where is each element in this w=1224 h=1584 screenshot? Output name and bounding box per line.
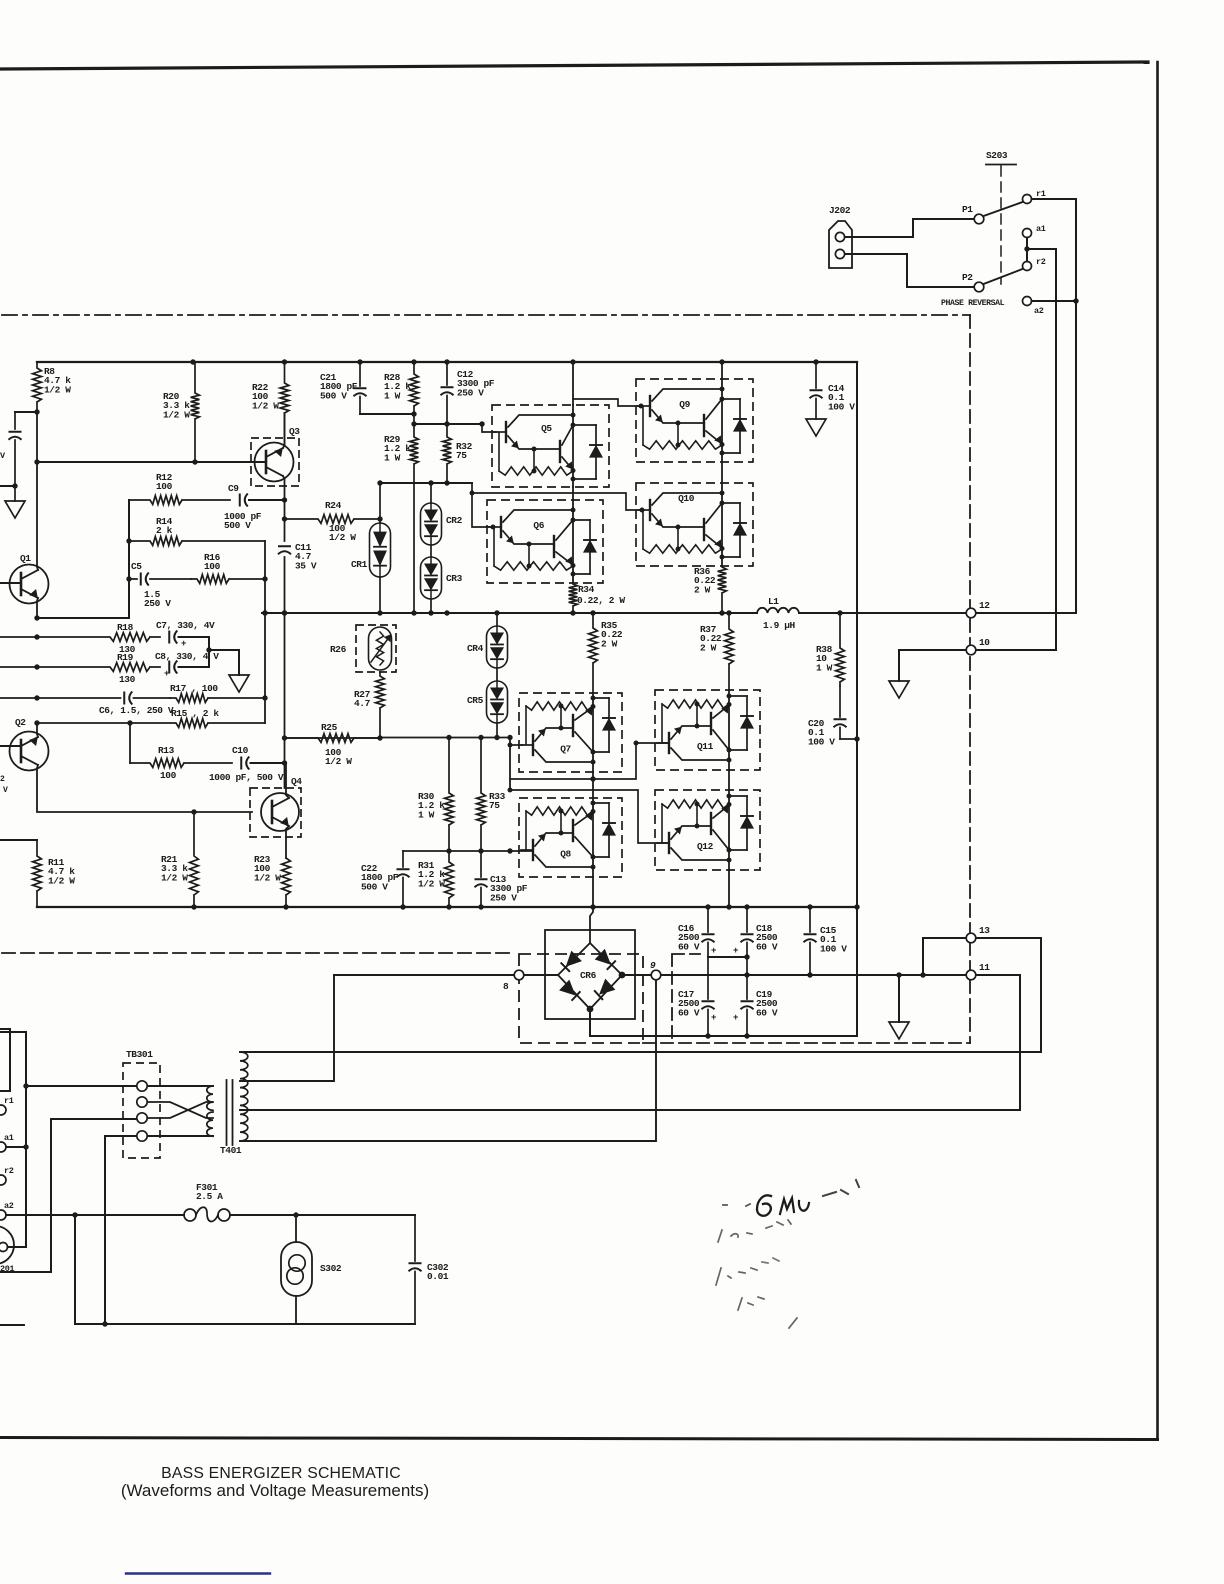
contact a1 chassis xyxy=(0,1142,6,1152)
svg-text:S203: S203 xyxy=(986,150,1008,161)
wire Q5 to Q6 xyxy=(572,487,574,500)
wire mains return column xyxy=(74,1215,76,1324)
svg-text:1000 pF, 500 V: 1000 pF, 500 V xyxy=(209,772,284,783)
resistor R24 xyxy=(285,515,381,524)
svg-text:100: 100 xyxy=(156,481,173,492)
svg-text:C6, 1.5, 250 V: C6, 1.5, 250 V xyxy=(99,705,174,716)
darlington Q8 xyxy=(519,798,622,877)
diode CR1 xyxy=(379,482,381,523)
wire bias row to Q5 xyxy=(414,423,482,425)
wire secondary tap upper to terminal 8 xyxy=(240,975,334,1081)
wire bottom stub xyxy=(0,1324,24,1326)
wire Q12 to supply bus xyxy=(728,870,730,907)
svg-text:J202: J202 xyxy=(829,205,851,216)
resistor R37 xyxy=(725,613,734,690)
svg-text:100 V: 100 V xyxy=(820,943,847,954)
wire TB301-1 feed xyxy=(0,1032,26,1247)
resistor R17 xyxy=(170,694,265,703)
contact a2 xyxy=(1023,297,1032,306)
svg-text:12: 12 xyxy=(979,600,990,611)
svg-text:100 V: 100 V xyxy=(828,401,855,412)
svg-text:8: 8 xyxy=(503,981,509,992)
thermistor R26 xyxy=(356,625,396,672)
svg-text:C5: C5 xyxy=(131,561,142,572)
wire +V supply bus xyxy=(37,361,857,363)
wire terminal 10 to ground xyxy=(899,650,966,681)
svg-text:CR4: CR4 xyxy=(467,643,484,654)
wire terminal 10 right xyxy=(976,649,1056,651)
svg-text:(Waveforms and Voltage Measure: (Waveforms and Voltage Measurements) xyxy=(121,1481,429,1500)
svg-text:R18: R18 xyxy=(117,622,134,633)
svg-text:250 V: 250 V xyxy=(457,387,484,398)
wire Q6 entry xyxy=(472,483,491,527)
svg-text:1/2 W: 1/2 W xyxy=(325,756,352,767)
contact a1 xyxy=(1023,229,1032,238)
transistor Q3 xyxy=(251,438,299,486)
contact r1 xyxy=(1023,195,1032,204)
resistor R25 xyxy=(285,734,381,743)
svg-text:Q11: Q11 xyxy=(697,741,714,752)
svg-text:1/2 W: 1/2 W xyxy=(44,384,71,395)
svg-text:500 V: 500 V xyxy=(224,520,251,531)
wire CR6 bottom rail xyxy=(590,1009,857,1036)
diode CR4 xyxy=(496,613,498,626)
diode CR3 xyxy=(430,545,432,557)
svg-text:Q5: Q5 xyxy=(541,423,552,434)
wire a1-r2 link xyxy=(1026,238,1028,262)
plug P201 xyxy=(0,1226,14,1264)
darlington Q10 xyxy=(636,483,753,566)
svg-text:1/2 W: 1/2 W xyxy=(252,400,279,411)
ground terminal 10 xyxy=(889,681,909,698)
resistor R36 xyxy=(718,566,727,613)
capacitor C14 xyxy=(815,362,817,388)
svg-text:+: + xyxy=(711,1013,716,1023)
svg-text:0.01: 0.01 xyxy=(427,1271,449,1282)
svg-text:R24: R24 xyxy=(325,500,342,511)
wire Q5 entry xyxy=(482,424,496,432)
svg-text:1 W: 1 W xyxy=(384,390,401,401)
wire Q9 to Q10 xyxy=(721,462,723,483)
svg-text:2: 2 xyxy=(0,775,5,784)
wire TB301-3 feed xyxy=(0,1119,137,1272)
transistor Q4 xyxy=(250,788,301,837)
svg-text:9: 9 xyxy=(650,960,656,971)
capacitor C7 xyxy=(168,631,170,644)
svg-text:R15 , 2 k: R15 , 2 k xyxy=(171,708,219,719)
svg-text:BASS ENERGIZER SCHEMATIC: BASS ENERGIZER SCHEMATIC xyxy=(161,1465,401,1482)
node supply bypass xyxy=(12,483,17,488)
capacitor C10 xyxy=(240,757,242,770)
svg-text:CR2: CR2 xyxy=(446,515,463,526)
svg-text:2.5 A: 2.5 A xyxy=(196,1191,223,1202)
resistor R8 xyxy=(33,362,42,412)
wire Q5 collector to bus xyxy=(572,362,574,405)
svg-text:250 V: 250 V xyxy=(144,598,171,609)
resistor R21 xyxy=(190,812,199,907)
svg-text:1/2 W: 1/2 W xyxy=(48,875,75,886)
wire Q7 emitter to Q11 base xyxy=(510,743,669,779)
svg-text:TB301: TB301 xyxy=(126,1049,153,1060)
svg-text:CR6: CR6 xyxy=(580,970,597,981)
fuse F301 xyxy=(184,1209,196,1221)
svg-text:130: 130 xyxy=(119,674,136,685)
resistor R30 xyxy=(445,738,454,852)
capacitor C8 xyxy=(168,661,170,674)
svg-text:L1: L1 xyxy=(768,596,779,607)
svg-text:100: 100 xyxy=(160,770,177,781)
svg-text:+: + xyxy=(733,1013,738,1023)
svg-text:Q4: Q4 xyxy=(291,776,302,787)
dashed box CR6 bridge xyxy=(519,954,643,1043)
dashed board outline right xyxy=(969,315,971,1043)
svg-text:C9: C9 xyxy=(228,483,239,494)
svg-text:13: 13 xyxy=(979,925,990,936)
resistor R31 xyxy=(445,851,454,907)
wire Q4 emitter xyxy=(286,826,289,858)
resistor R29 xyxy=(410,414,419,613)
wire Q7 base entry xyxy=(510,744,523,746)
diode CR5 xyxy=(496,668,498,681)
resistor R35 xyxy=(589,613,598,693)
wire driver bias row to Q7 xyxy=(285,738,511,791)
svg-text:T401: T401 xyxy=(220,1145,242,1156)
svg-text:0.22, 2 W: 0.22, 2 W xyxy=(577,595,625,606)
svg-text:201: 201 xyxy=(0,1264,14,1274)
svg-text:+: + xyxy=(733,946,738,956)
contact P1 xyxy=(974,214,984,224)
blue underline mark xyxy=(126,1572,270,1574)
switch arm P2-r2 xyxy=(984,269,1023,284)
wire Q1 emitter xyxy=(37,598,38,618)
dashed board outline bottom xyxy=(2,952,512,954)
svg-text:2 W: 2 W xyxy=(601,638,618,649)
wire Q11 to Q12 xyxy=(728,770,730,790)
wire Q9 collector to bus xyxy=(721,362,723,379)
svg-text:Q9: Q9 xyxy=(679,399,690,410)
capacitor C11 xyxy=(278,545,291,547)
svg-text:60 V: 60 V xyxy=(756,1007,778,1018)
inductor L1 xyxy=(757,608,799,613)
handwritten note xyxy=(757,1195,771,1215)
terminal 9 xyxy=(622,974,1020,976)
ground C14 xyxy=(806,419,826,436)
svg-text:Q7: Q7 xyxy=(560,743,571,754)
capacitor C22 xyxy=(402,851,404,867)
svg-text:r2: r2 xyxy=(1036,257,1046,267)
svg-text:100 V: 100 V xyxy=(808,736,835,747)
wire Q4 collector xyxy=(286,763,289,798)
border top rule xyxy=(0,62,1148,69)
capacitor C5 xyxy=(140,573,142,586)
svg-text:PHASE REVERSAL: PHASE REVERSAL xyxy=(941,299,1005,308)
resistor R19 xyxy=(0,663,160,672)
wire TB301-4 feed xyxy=(105,1136,137,1324)
wire Q3 base row xyxy=(37,461,266,463)
svg-text:CR1: CR1 xyxy=(351,559,368,570)
terminal 13 xyxy=(923,938,966,975)
resistor R32 xyxy=(443,424,452,482)
wire a2 to r1 column xyxy=(1032,300,1077,302)
resistor R27 xyxy=(376,672,385,738)
resistor R20 xyxy=(191,362,200,462)
resistor R18 xyxy=(0,633,160,642)
diode CR2 xyxy=(430,482,432,503)
wire output rail xyxy=(262,612,1076,614)
svg-text:Q6: Q6 xyxy=(533,520,544,531)
wire diode string top row xyxy=(380,482,472,484)
wire secondary tap bottom to terminal 9 xyxy=(240,980,656,1141)
transformer T401 xyxy=(207,1086,213,1110)
svg-text:100: 100 xyxy=(204,561,221,572)
svg-text:60 V: 60 V xyxy=(678,1007,700,1018)
ground C7/C8 xyxy=(229,675,249,692)
svg-text:Q2: Q2 xyxy=(15,717,26,728)
wire Q3 emitter xyxy=(283,476,285,500)
contact P2 xyxy=(974,282,984,292)
svg-text:1 W: 1 W xyxy=(418,809,435,820)
svg-text:CR3: CR3 xyxy=(446,573,463,584)
svg-text:R17 , 100: R17 , 100 xyxy=(170,683,218,694)
svg-text:V: V xyxy=(3,786,8,795)
resistor R34 xyxy=(569,583,578,613)
contact r2 chassis xyxy=(0,1175,6,1185)
svg-text:Q1: Q1 xyxy=(20,553,31,564)
capacitor C19 xyxy=(746,975,748,999)
svg-text:r2: r2 xyxy=(4,1166,14,1176)
switch arm P1-r1 xyxy=(984,202,1023,216)
svg-text:11: 11 xyxy=(979,962,990,973)
svg-text:1 W: 1 W xyxy=(816,662,833,673)
svg-text:+: + xyxy=(711,946,716,956)
svg-text:2 W: 2 W xyxy=(700,642,717,653)
svg-text:10: 10 xyxy=(979,637,990,648)
wire TB301-3 cross to primary xyxy=(148,1102,214,1118)
svg-text:500 V: 500 V xyxy=(361,881,388,892)
svg-text:60 V: 60 V xyxy=(678,941,700,952)
ground filter rail xyxy=(898,975,900,1022)
resistor R33 xyxy=(477,738,486,852)
capacitor C12 xyxy=(446,362,448,385)
svg-text:1/2 W: 1/2 W xyxy=(161,872,188,883)
darlington Q9 xyxy=(636,379,753,462)
svg-text:R19: R19 xyxy=(117,652,134,663)
svg-text:R25: R25 xyxy=(321,722,338,733)
wire R8 bottom to bypass node xyxy=(15,411,37,413)
svg-text:1.9 μH: 1.9 μH xyxy=(763,620,796,631)
svg-text:1/2 W: 1/2 W xyxy=(329,532,356,543)
svg-text:R34: R34 xyxy=(578,584,595,595)
svg-text:2 W: 2 W xyxy=(694,584,711,595)
svg-text:1/2 W: 1/2 W xyxy=(418,878,445,889)
resistor R23 xyxy=(282,858,291,907)
darlington Q12 xyxy=(655,790,760,870)
svg-text:1/2 W: 1/2 W xyxy=(254,872,281,883)
svg-text:1/2 W: 1/2 W xyxy=(163,409,190,420)
dashed board outline top xyxy=(2,314,970,316)
svg-text:C10: C10 xyxy=(232,745,249,756)
svg-text:R13: R13 xyxy=(158,745,175,756)
wire Q2 base xyxy=(0,745,21,747)
svg-text:75: 75 xyxy=(489,800,500,811)
wire terminal 11 to transformer tap xyxy=(1019,975,1021,1110)
capacitor C13 xyxy=(480,851,482,877)
svg-text:C8, 330, 4 V: C8, 330, 4 V xyxy=(155,651,219,662)
capacitor C20 xyxy=(839,686,841,717)
switch S302 xyxy=(295,1215,297,1242)
wire J202 to P2 xyxy=(845,254,974,287)
svg-text:Q8: Q8 xyxy=(560,848,571,859)
wire Q8 base row xyxy=(403,850,533,852)
svg-text:r1: r1 xyxy=(4,1096,14,1106)
wire secondary tap top xyxy=(240,1051,1041,1053)
capacitor C21 xyxy=(359,362,361,386)
wire Q1 emitter to C5 row xyxy=(37,500,129,618)
wire Q3 emitter bias column xyxy=(284,500,286,541)
resistor R15 xyxy=(37,719,265,728)
svg-text:Q3: Q3 xyxy=(289,426,300,437)
wire C7/C8 junction to ground xyxy=(209,637,239,675)
resistor R38 xyxy=(836,613,845,686)
wire r1 to output node 12 column xyxy=(1032,199,1077,613)
capacitor C17 xyxy=(707,957,709,999)
wire Q9 entry from Q5 collector xyxy=(573,399,640,406)
wire mains live row xyxy=(6,1214,415,1216)
svg-text:Q10: Q10 xyxy=(678,493,695,504)
svg-text:2 k: 2 k xyxy=(156,525,173,536)
wire C21 to R28 bottom xyxy=(360,413,414,415)
svg-text:r1: r1 xyxy=(1036,189,1046,199)
svg-text:Q12: Q12 xyxy=(697,841,714,852)
wire TB301-2 cross to primary xyxy=(148,1102,214,1118)
svg-text:R26: R26 xyxy=(330,644,347,655)
capacitor C6 xyxy=(123,692,125,705)
resistor R11 xyxy=(0,839,37,841)
wire Q3 collector xyxy=(283,413,285,448)
svg-text:4.7: 4.7 xyxy=(354,698,371,709)
wire TB301-1 to primary xyxy=(148,1085,214,1087)
terminal 8 xyxy=(334,974,514,976)
svg-text:+: + xyxy=(181,639,186,649)
resistor R28 xyxy=(410,362,419,414)
svg-text:60 V: 60 V xyxy=(756,941,778,952)
wire a1 tap to node 10 column xyxy=(1027,249,1056,650)
wire TB301-4 to primary xyxy=(148,1135,214,1137)
wire Q8 output to CR6 xyxy=(590,877,593,943)
svg-text:S302: S302 xyxy=(320,1263,342,1274)
terminal 11 xyxy=(966,970,976,980)
wire Q8 collector to Q12 base xyxy=(510,790,669,843)
resistor R12 xyxy=(129,496,230,505)
wire Q1 base xyxy=(0,582,21,584)
wire Q2 emitter to Q4 base xyxy=(37,765,252,812)
ground supply bypass xyxy=(14,486,16,501)
wire C5 row column xyxy=(129,723,131,763)
svg-text:C7, 330, 4V: C7, 330, 4V xyxy=(156,620,215,631)
terminal block TB301 xyxy=(123,1063,160,1158)
svg-text:500 V: 500 V xyxy=(320,390,347,401)
contact a2 chassis xyxy=(0,1210,6,1220)
svg-text:35 V: 35 V xyxy=(295,560,317,571)
rectifier CR6 xyxy=(545,930,635,1019)
terminal 10 xyxy=(966,645,976,655)
capacitor C9 xyxy=(239,494,241,507)
svg-text:1 W: 1 W xyxy=(384,452,401,463)
resistor R13 xyxy=(130,759,232,768)
svg-text:a2: a2 xyxy=(4,1201,14,1211)
resistor R22 xyxy=(280,362,289,445)
capacitor C15 xyxy=(809,907,811,932)
border bottom rule xyxy=(0,1438,1158,1440)
svg-text:a1: a1 xyxy=(1036,224,1046,234)
dashed box filter capacitors xyxy=(643,954,970,1043)
wire supply drop column xyxy=(856,362,858,1036)
capacitor C302 xyxy=(414,1215,416,1261)
terminal 12 xyxy=(966,608,976,618)
wire mains bottom row xyxy=(75,1323,415,1325)
darlington Q6 xyxy=(487,500,603,583)
svg-text:P1: P1 xyxy=(962,204,973,215)
wire secondary center tap xyxy=(240,1109,1020,1111)
svg-text:250 V: 250 V xyxy=(490,892,517,903)
wire R15/R17 column to output rail xyxy=(264,541,266,723)
darlington Q5 xyxy=(492,405,609,487)
svg-text:75: 75 xyxy=(456,450,467,461)
contact r2 xyxy=(1023,262,1032,271)
svg-text:a2: a2 xyxy=(1034,306,1044,316)
capacitor C18 xyxy=(746,907,748,932)
darlington Q11 xyxy=(655,690,760,770)
svg-text:P2: P2 xyxy=(962,272,973,283)
contact r1 chassis xyxy=(0,1105,6,1115)
svg-text:+: + xyxy=(164,669,169,679)
wire Q7 to Q8 xyxy=(592,772,594,798)
wire Q10 entry xyxy=(472,493,640,510)
svg-text:a1: a1 xyxy=(4,1133,14,1143)
wire J202 to P1 xyxy=(845,219,974,237)
wire Q1 collector to Q3 base xyxy=(37,412,38,570)
darlington Q7 xyxy=(519,693,622,772)
svg-text:CR5: CR5 xyxy=(467,695,484,706)
capacitor supply bypass xyxy=(14,412,16,429)
border right rule xyxy=(1156,62,1159,1439)
capacitor C16 xyxy=(707,907,709,932)
wire -V supply bus xyxy=(37,906,857,908)
resistor R14 xyxy=(129,537,265,546)
wire Q2 collector to R15 row xyxy=(37,723,38,737)
resistor R16 xyxy=(191,575,265,584)
wire C16-C18 link xyxy=(708,956,747,958)
